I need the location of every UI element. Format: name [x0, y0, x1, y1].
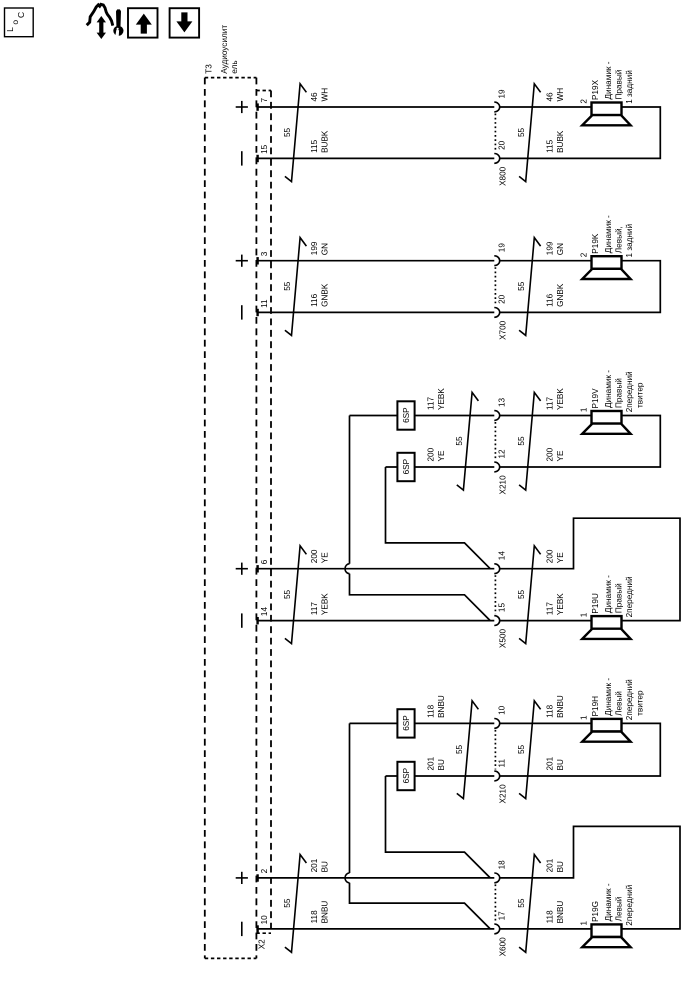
svg-text:o: o — [10, 20, 20, 25]
connector X210 pin 12 terminal — [494, 462, 499, 472]
speaker P19U body — [592, 616, 622, 629]
svg-text:118: 118 — [310, 910, 319, 923]
svg-text:6: 6 — [260, 559, 269, 564]
svg-text:X700: X700 — [499, 320, 508, 340]
svg-text:Левый,: Левый, — [615, 226, 624, 253]
svg-text:Аудиоусилит: Аудиоусилит — [220, 25, 229, 74]
svg-text:Динамик -: Динамик - — [604, 575, 613, 613]
svg-text:2передний: 2передний — [625, 679, 634, 720]
svg-text:P19K: P19K — [591, 233, 600, 254]
svg-text:55: 55 — [517, 898, 526, 908]
svg-text:Динамик -: Динамик - — [604, 370, 613, 408]
wire from tweeter P19V pin 2 return loop — [500, 416, 661, 468]
wire size slash 55 — [457, 701, 479, 799]
svg-text:14: 14 — [260, 607, 269, 617]
svg-text:55: 55 — [283, 127, 292, 137]
wire size slash 55 — [519, 546, 541, 644]
wire 118 BNBU from amp pin 10 to X600 — [256, 928, 494, 930]
wire 46 WH from amp pin 7 to X800 — [256, 106, 494, 108]
icon repair-instructions wrench handle — [116, 9, 121, 26]
wire size slash 55 — [519, 84, 541, 182]
svg-text:YEBK: YEBK — [320, 593, 329, 615]
svg-text:BNBU: BNBU — [437, 695, 446, 718]
wire 201 BU from X600 over speaker P19G to pin 2 — [500, 826, 680, 929]
svg-text:X800: X800 — [499, 166, 508, 186]
svg-text:20: 20 — [498, 140, 507, 150]
svg-text:BNBU: BNBU — [556, 695, 565, 718]
wire 117 YEBK from splice to X210 — [350, 415, 495, 417]
svg-text:200: 200 — [546, 447, 555, 461]
svg-text:P19G: P19G — [591, 901, 600, 922]
icon previous-page up arrow box — [128, 8, 158, 37]
svg-text:55: 55 — [283, 589, 292, 599]
wire 116 GNBK from X700 to amp pin 11 — [256, 311, 494, 313]
wire 201 BU tweeter branch riser to X600 pin 18 — [386, 776, 491, 878]
svg-text:Левый: Левый — [615, 691, 624, 716]
svg-text:Динамик -: Динамик - — [604, 678, 613, 716]
connector X600 pin 17 terminal — [494, 924, 499, 934]
svg-text:55: 55 — [283, 281, 292, 291]
icon repair-instructions arrow outline — [87, 4, 113, 25]
svg-text:10: 10 — [260, 915, 269, 925]
amp - polarity mark — [241, 151, 243, 165]
svg-text:115: 115 — [310, 139, 319, 152]
svg-text:1: 1 — [580, 921, 589, 926]
amp pin 15 tick — [256, 155, 258, 162]
svg-text:116: 116 — [546, 293, 555, 306]
svg-text:1: 1 — [580, 612, 589, 617]
svg-text:1 задний: 1 задний — [625, 224, 634, 258]
svg-text:Динамик -: Динамик - — [604, 215, 613, 253]
amp + polarity mark — [236, 106, 248, 108]
svg-text:11: 11 — [498, 759, 507, 768]
amp - polarity mark — [241, 613, 243, 627]
svg-text:17: 17 — [498, 911, 507, 921]
svg-text:Динамик -: Динамик - — [604, 883, 613, 921]
connector X210 pin 10 terminal — [494, 719, 499, 729]
wire 201 BU from amp pin 2 to X600 — [256, 877, 494, 879]
svg-text:55: 55 — [283, 898, 292, 908]
svg-text:Правый: Правый — [615, 583, 624, 613]
wire size slash 55 — [519, 392, 541, 490]
svg-text:L: L — [5, 27, 15, 32]
svg-text:P19X: P19X — [591, 79, 600, 100]
svg-text:BNBU: BNBU — [556, 901, 565, 924]
wire 117 YEBK riser to X500 pin 15 — [350, 574, 491, 621]
connector X700 body — [494, 267, 496, 306]
svg-text:201: 201 — [546, 858, 555, 872]
connector X210 body — [494, 730, 496, 770]
svg-text:ель: ель — [230, 60, 239, 73]
connector X600 body — [494, 884, 496, 922]
svg-text:C: C — [16, 12, 26, 18]
svg-text:1: 1 — [580, 715, 589, 720]
svg-text:117: 117 — [310, 602, 319, 615]
svg-text:X210: X210 — [499, 475, 508, 495]
speaker P19V cone — [582, 424, 630, 434]
svg-text:118: 118 — [546, 704, 555, 717]
svg-text:13: 13 — [498, 397, 507, 407]
svg-text:GN: GN — [556, 243, 565, 255]
svg-text:YE: YE — [556, 552, 565, 563]
svg-text:6SP: 6SP — [402, 407, 411, 423]
svg-text:BU: BU — [320, 861, 329, 872]
svg-text:200: 200 — [546, 549, 555, 563]
amp pin 7 tick — [256, 103, 258, 110]
speaker P19G cone — [582, 937, 630, 947]
svg-text:6SP: 6SP — [402, 767, 411, 783]
svg-text:117: 117 — [546, 397, 555, 410]
svg-text:55: 55 — [517, 589, 526, 599]
svg-text:3: 3 — [260, 251, 269, 256]
svg-text:11: 11 — [260, 299, 269, 308]
speaker P19G body — [592, 924, 622, 937]
wire 117 YEBK from X210 to tweeter P19V — [500, 415, 592, 417]
splice 6SP on 118 BNBU — [397, 709, 414, 737]
svg-text:2передний: 2передний — [625, 371, 634, 412]
svg-text:55: 55 — [455, 436, 464, 446]
svg-text:118: 118 — [427, 704, 436, 717]
connector X700 pin 20 terminal — [494, 308, 499, 318]
svg-text:твитер: твитер — [636, 382, 645, 408]
speaker P19H cone — [582, 732, 630, 742]
svg-text:YE: YE — [556, 450, 565, 461]
svg-text:10: 10 — [498, 705, 507, 715]
icon next-page down arrow — [176, 12, 192, 32]
connector X210 pin 11 terminal — [494, 771, 499, 781]
svg-text:115: 115 — [546, 139, 555, 152]
wire 115 BUBK from X800 to amp pin 15 — [256, 157, 494, 159]
svg-text:BU: BU — [437, 759, 446, 770]
svg-text:X500: X500 — [499, 629, 508, 649]
wire 118 BNBU from X210 to tweeter P19H — [500, 722, 592, 724]
svg-text:55: 55 — [455, 744, 464, 754]
wire 46 WH from X800 to speaker P19X — [500, 106, 592, 108]
amplifier connector X2 dashed outline — [256, 90, 271, 92]
svg-text:199: 199 — [310, 241, 319, 255]
wire 200 YE from splice to X210 — [386, 466, 495, 468]
svg-text:6SP: 6SP — [402, 715, 411, 731]
svg-text:YE: YE — [437, 450, 446, 461]
svg-text:GNBK: GNBK — [556, 283, 565, 307]
wire 199 GN from amp pin 3 to X700 — [256, 260, 494, 262]
icon repair-instructions wrench jaw — [113, 26, 123, 36]
svg-text:YE: YE — [320, 552, 329, 563]
amp + polarity mark — [236, 260, 248, 262]
icon previous-page up arrow — [136, 14, 152, 34]
wire 118 BNBU from X600 to speaker P19G pin 1 — [500, 928, 592, 930]
wire size slash 55 — [519, 701, 541, 799]
speaker P19H body — [592, 719, 622, 732]
wire 118 BNBU from splice to X210 — [350, 722, 495, 724]
svg-text:Т3: Т3 — [204, 64, 213, 74]
wire 118 BNBU tweeter branch riser — [349, 723, 351, 873]
splice 6SP on 200 YE — [397, 453, 414, 481]
svg-text:15: 15 — [260, 144, 269, 154]
amp pin 14 tick — [256, 617, 258, 624]
amp - polarity mark — [241, 922, 243, 936]
wire from tweeter P19H pin 2 return loop — [500, 723, 661, 776]
svg-text:55: 55 — [517, 281, 526, 291]
connector X210 body — [494, 422, 496, 461]
svg-text:200: 200 — [427, 447, 436, 461]
wire size slash 55 — [285, 855, 307, 953]
svg-text:Левый: Левый — [615, 897, 624, 922]
wire 118 BNBU riser to X600 pin 17 — [350, 883, 491, 929]
svg-text:X210: X210 — [499, 784, 508, 804]
amp - polarity mark — [241, 305, 243, 319]
svg-text:GNBK: GNBK — [320, 283, 329, 307]
svg-text:X2: X2 — [258, 939, 267, 949]
svg-text:201: 201 — [427, 756, 436, 770]
svg-text:7: 7 — [260, 98, 269, 103]
wire 201 BU from splice to X210 — [386, 775, 495, 777]
svg-text:46: 46 — [546, 92, 555, 102]
svg-text:118: 118 — [546, 910, 555, 923]
svg-text:WH: WH — [320, 88, 329, 102]
amp + polarity mark — [236, 877, 248, 879]
svg-text:BUBK: BUBK — [320, 130, 329, 153]
wire 117 YEBK from X500 to speaker P19U pin 1 — [500, 620, 592, 622]
wire size slash 55 — [519, 238, 541, 336]
svg-text:199: 199 — [546, 241, 555, 255]
svg-text:55: 55 — [517, 127, 526, 137]
svg-text:15: 15 — [498, 603, 507, 613]
svg-text:46: 46 — [310, 92, 319, 102]
svg-text:12: 12 — [498, 449, 507, 459]
svg-text:Динамик -: Динамик - — [604, 61, 613, 99]
svg-text:14: 14 — [498, 551, 507, 561]
speaker P19K body — [592, 256, 622, 269]
svg-text:GN: GN — [320, 243, 329, 255]
svg-text:YEBK: YEBK — [437, 388, 446, 410]
svg-text:P19V: P19V — [591, 388, 600, 409]
svg-text:117: 117 — [546, 602, 555, 615]
speaker P19K cone — [582, 269, 630, 279]
svg-text:55: 55 — [517, 436, 526, 446]
svg-text:X600: X600 — [499, 937, 508, 957]
wire size slash 55 — [285, 84, 307, 182]
svg-text:2: 2 — [260, 868, 269, 873]
icon repair-instructions double arrow — [97, 16, 106, 39]
svg-text:Правый: Правый — [615, 70, 624, 100]
svg-text:1 задний: 1 задний — [625, 70, 634, 104]
svg-text:2: 2 — [580, 99, 589, 104]
svg-text:1: 1 — [580, 407, 589, 412]
svg-text:2: 2 — [580, 252, 589, 257]
icon next-page down arrow box — [170, 8, 200, 37]
svg-text:BU: BU — [556, 861, 565, 872]
speaker P19X cone — [582, 115, 630, 125]
svg-text:BNBU: BNBU — [320, 901, 329, 924]
connector X500 pin 15 terminal — [494, 616, 499, 626]
svg-text:19: 19 — [498, 243, 507, 253]
wire size slash 55 — [285, 546, 307, 644]
svg-text:BU: BU — [556, 759, 565, 770]
svg-text:P19U: P19U — [591, 593, 600, 614]
svg-text:P19H: P19H — [591, 696, 600, 717]
svg-text:Правый: Правый — [615, 378, 624, 408]
svg-text:2передний: 2передний — [625, 576, 634, 617]
connector X500 pin 14 terminal — [494, 564, 499, 574]
svg-text:19: 19 — [498, 89, 507, 99]
svg-text:6SP: 6SP — [402, 458, 411, 474]
wire size slash 55 — [519, 855, 541, 953]
wire 117 YEBK from amp pin 14 to X500 — [256, 620, 494, 622]
wire 199 GN from X700 to speaker P19K — [500, 260, 592, 262]
connector X800 pin 19 terminal — [494, 102, 499, 112]
connector X600 pin 18 terminal — [494, 873, 499, 883]
connector X700 pin 19 terminal — [494, 256, 499, 266]
svg-text:201: 201 — [546, 756, 555, 770]
amp pin 10 tick — [256, 925, 258, 932]
splice 6SP on 117 YEBK — [397, 401, 414, 429]
amp pin 3 tick — [256, 257, 258, 264]
svg-text:BUBK: BUBK — [556, 130, 565, 153]
speaker P19U cone — [582, 629, 630, 639]
wire 200 YE from amp pin 6 to X500 — [256, 568, 494, 570]
svg-text:200: 200 — [310, 549, 319, 563]
wire 200 YE from X500 over speaker P19U to pin 2 — [500, 518, 680, 620]
wire 200 YE tweeter branch riser to X500 pin 14 — [386, 467, 491, 569]
wire size slash 55 — [457, 392, 479, 490]
speaker P19X body — [592, 103, 622, 116]
connector X210 pin 13 terminal — [494, 411, 499, 421]
svg-text:WH: WH — [556, 88, 565, 102]
amp pin 6 tick — [256, 565, 258, 572]
wire from speaker P19K return loop — [500, 261, 661, 313]
svg-text:твитер: твитер — [636, 690, 645, 716]
icon LOC location-view box — [5, 8, 34, 37]
splice 6SP on 201 BU — [397, 762, 414, 790]
svg-text:18: 18 — [498, 860, 507, 870]
svg-text:116: 116 — [310, 293, 319, 306]
svg-text:201: 201 — [310, 858, 319, 872]
connector X500 body — [494, 575, 496, 614]
amp pin 11 tick — [256, 309, 258, 316]
wire from speaker P19X return loop — [500, 107, 661, 158]
amp pin 2 tick — [256, 874, 258, 881]
svg-text:55: 55 — [517, 744, 526, 754]
wire size slash 55 — [285, 238, 307, 336]
svg-text:20: 20 — [498, 294, 507, 304]
svg-text:2передний: 2передний — [625, 885, 634, 926]
svg-text:YEBK: YEBK — [556, 388, 565, 410]
speaker P19V body — [592, 411, 622, 424]
wire 117 YEBK tweeter branch riser — [349, 416, 351, 564]
amp + polarity mark — [236, 568, 248, 570]
svg-text:YEBK: YEBK — [556, 593, 565, 615]
connector X800 pin 20 terminal — [494, 154, 499, 164]
svg-text:117: 117 — [427, 397, 436, 410]
amplifier T3 dashed outline — [205, 77, 257, 79]
connector X800 body — [494, 114, 496, 152]
